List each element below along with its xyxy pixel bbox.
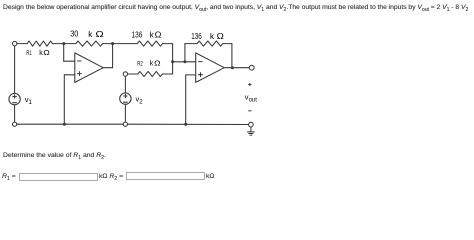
node Vout junction xyxy=(231,66,234,69)
resistor 136 kohm feedback U2 xyxy=(197,41,223,46)
svg-text:R2: R2 xyxy=(137,62,143,68)
question text xyxy=(3,152,106,159)
wire V1 bottom xyxy=(14,105,16,122)
input box R2 xyxy=(126,172,205,180)
svg-text:R1: R1 xyxy=(26,51,32,57)
terminal Vout xyxy=(249,65,254,70)
terminal ground right xyxy=(249,122,254,127)
svg-text:2: 2 xyxy=(139,100,143,106)
svg-text:1: 1 xyxy=(29,100,33,106)
wire U1 output xyxy=(103,67,112,69)
svg-text:out: out xyxy=(249,97,258,103)
wire U1 output up to node B xyxy=(112,44,114,68)
label - polarity output xyxy=(248,110,251,112)
svg-text:30: 30 xyxy=(70,29,78,39)
wire 136k-2 left lead xyxy=(185,43,197,45)
svg-text:k: k xyxy=(150,61,154,68)
wire 136k-1 down to node C xyxy=(172,44,174,62)
wire node C to U2 inverting input xyxy=(173,61,196,63)
svg-text:Ω: Ω xyxy=(217,31,224,41)
input box R1 xyxy=(19,173,98,181)
node C junction xyxy=(171,60,174,63)
wire U2 non-inverting input down to ground rail xyxy=(185,75,187,124)
answer row R1 xyxy=(2,173,16,180)
wire V2 top xyxy=(124,76,126,93)
wire node A down to U1 inverting input xyxy=(63,44,65,62)
ground xyxy=(248,132,255,135)
svg-text:136: 136 xyxy=(191,31,202,41)
svg-text:Ω: Ω xyxy=(43,48,50,57)
wire 136k-1 right lead xyxy=(163,43,173,45)
node D junction xyxy=(183,60,186,63)
terminal V2 ground xyxy=(123,122,127,126)
wire V2 terminal to R2 xyxy=(128,73,138,75)
terminal V1 input xyxy=(13,41,17,45)
source V2 xyxy=(120,93,131,104)
resistor R2 xyxy=(138,71,163,76)
wire U2 output to output terminal xyxy=(224,67,249,69)
wire into U1 non-inverting input xyxy=(64,74,75,76)
wire V1 top xyxy=(14,46,16,94)
op-amp U2 xyxy=(196,53,225,83)
wire ground stem xyxy=(250,127,252,132)
wire into U2 non-inverting input xyxy=(186,74,196,76)
wire node D up to 136k-2 xyxy=(184,44,186,62)
wire into U1 inverting input xyxy=(64,60,75,62)
svg-text:Ω: Ω xyxy=(154,59,161,68)
node B junction xyxy=(111,42,114,45)
wire ground rail left xyxy=(16,123,123,125)
terminal V2 input xyxy=(123,72,127,76)
problem statement xyxy=(3,4,468,11)
wire input terminal to R1 xyxy=(17,43,27,45)
wire R2 right lead xyxy=(163,73,173,75)
source V1 xyxy=(9,93,20,104)
label + polarity output xyxy=(248,83,251,86)
resistor 136 kohm input U2 xyxy=(137,41,162,46)
op-amp U1 xyxy=(75,53,103,83)
wire U1 non-inverting input down to ground rail xyxy=(63,75,65,124)
wire 30k to 136k-1 through node B xyxy=(103,43,138,45)
svg-text:Ω: Ω xyxy=(95,29,103,39)
wire 136k-2 down to op-amp U2 output xyxy=(231,44,233,68)
svg-text:k: k xyxy=(210,32,215,41)
wire 136k-2 right lead xyxy=(223,43,232,45)
resistor R1 xyxy=(27,41,52,46)
wire node C down to R2 xyxy=(172,62,174,74)
wire ground rail right xyxy=(127,123,248,125)
resistor 30 kohm feedback U1 xyxy=(76,41,103,46)
junction ground rail right xyxy=(184,123,187,126)
node A junction xyxy=(62,42,65,45)
wire R1 to 30k xyxy=(52,43,75,45)
wire V2 bottom xyxy=(124,104,126,122)
svg-text:136: 136 xyxy=(132,29,143,39)
svg-text:Ω: Ω xyxy=(155,30,162,40)
junction ground rail left xyxy=(63,123,66,126)
svg-text:k: k xyxy=(88,30,93,39)
terminal ground rail left end xyxy=(13,122,17,126)
